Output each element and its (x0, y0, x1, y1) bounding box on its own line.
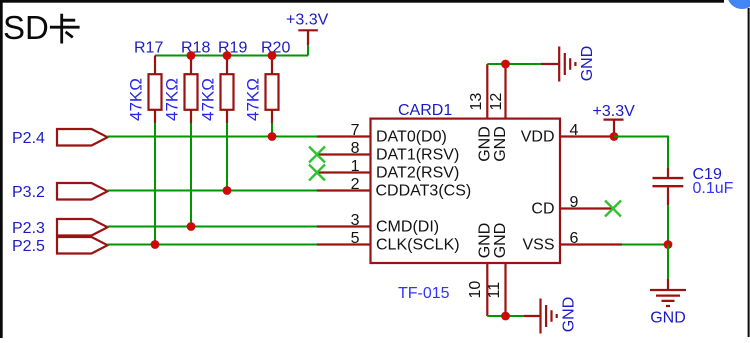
svg-text:GND: GND (650, 310, 686, 327)
svg-text:8: 8 (351, 140, 360, 157)
wire VSS to junction (622, 244, 668, 246)
junction P3.2/R19 (223, 186, 232, 195)
ground GND (bottom right) (650, 279, 686, 327)
svg-text:P2.3: P2.3 (12, 220, 45, 237)
no-ERC marker X pin 8 (309, 147, 325, 163)
power +3.3V (left) symbol (286, 12, 329, 56)
svg-text:P2.4: P2.4 (12, 130, 45, 147)
svg-text:GND: GND (579, 46, 596, 82)
svg-text:R19: R19 (218, 40, 247, 57)
svg-text:13: 13 (468, 93, 485, 111)
wire R20 column (271, 123, 273, 137)
border left (0, 0, 3, 338)
svg-text:1: 1 (351, 158, 360, 175)
svg-text:6: 6 (570, 230, 579, 247)
junction rail-R18 (187, 51, 196, 60)
pin 13 GND (top) (468, 64, 494, 162)
wire P2.3 to pin3 (108, 226, 318, 228)
no-ERC marker X pin 9 (605, 201, 621, 217)
svg-text:R18: R18 (181, 40, 210, 57)
port P2.5 (12, 237, 108, 255)
pin 12 GND (top) (488, 64, 509, 162)
no-ERC marker X pin 1 (309, 165, 325, 181)
resistor R20 (261, 40, 290, 124)
title SD卡 (3, 9, 80, 46)
svg-text:0.1uF: 0.1uF (693, 180, 734, 197)
pin 2 CDDAT3(CS) (317, 176, 471, 200)
wire P2.5 to pin5 (108, 244, 318, 246)
ground GND (top right, sideways) (541, 46, 596, 82)
wire +3.3V rail (155, 55, 308, 57)
wire R19 column (226, 123, 228, 191)
port P3.2 (12, 183, 108, 201)
ground GND (bottom, sideways) (524, 297, 578, 334)
resistor R19 (218, 40, 247, 124)
svg-text:11: 11 (486, 282, 503, 299)
svg-text:+3.3V: +3.3V (286, 12, 329, 29)
wire C19 to VSS row (667, 205, 669, 245)
pin 1 DAT2(RSV) (317, 158, 459, 182)
pin 8 DAT1(RSV) (317, 140, 459, 164)
wire P3.2 to pin2 (108, 190, 318, 192)
wire VDD to C19 column (614, 137, 668, 169)
svg-text:TF-015: TF-015 (398, 285, 450, 302)
svg-text:3: 3 (351, 212, 360, 229)
svg-text:DAT2(RSV): DAT2(RSV) (376, 165, 459, 182)
svg-text:+3.3V: +3.3V (593, 103, 636, 120)
svg-text:10: 10 (467, 281, 484, 299)
svg-text:P2.5: P2.5 (12, 238, 45, 255)
svg-text:7: 7 (351, 122, 360, 139)
svg-text:CD: CD (531, 201, 554, 218)
junction rail-R20 (268, 51, 277, 60)
svg-text:SD: SD (3, 9, 49, 46)
pin 7 DAT0(D0) (317, 122, 447, 146)
junction rail-R19 (223, 51, 232, 60)
svg-text:GND: GND (492, 223, 509, 259)
svg-text:P3.2: P3.2 (12, 184, 45, 201)
pin 10 GND (bottom) (467, 223, 494, 316)
port P2.4 (12, 129, 108, 147)
resistor R18 (181, 40, 210, 124)
border right (748, 8, 750, 337)
pin 9 CD (531, 194, 613, 218)
junction bottom pin11 (501, 312, 510, 321)
svg-text:CARD1: CARD1 (398, 102, 452, 119)
svg-text:VDD: VDD (521, 129, 555, 146)
pin 11 GND (bottom) (486, 223, 509, 316)
pin 3 CMD(DI) (317, 212, 439, 236)
svg-text:GND: GND (561, 297, 578, 333)
svg-text:2: 2 (351, 176, 360, 193)
port P2.3 (12, 219, 108, 237)
svg-text:DAT0(D0): DAT0(D0) (376, 129, 447, 146)
capacitor C19 (653, 166, 722, 205)
IC U1 CARD1 body (371, 119, 561, 263)
svg-text:47KΩ: 47KΩ (163, 78, 182, 121)
border top (0, 0, 724, 3)
svg-text:DAT1(RSV): DAT1(RSV) (376, 147, 459, 164)
svg-text:CLK(SCLK): CLK(SCLK) (376, 237, 460, 254)
pin 5 CLK(SCLK) (317, 230, 460, 254)
svg-text:4: 4 (570, 122, 579, 139)
junction VDD/+3.3V (610, 132, 619, 141)
pin 6 VSS (522, 230, 622, 254)
svg-text:12: 12 (488, 93, 505, 111)
svg-text:GND: GND (492, 126, 509, 162)
svg-text:R17: R17 (134, 40, 163, 57)
power +3.3V (right) symbol (593, 103, 636, 137)
wire R17 column (154, 123, 156, 245)
pin 4 VDD (521, 122, 614, 146)
svg-text:47KΩ: 47KΩ (127, 78, 146, 121)
wire bottom pins to GND (487, 315, 524, 317)
svg-text:VSS: VSS (522, 237, 554, 254)
wire R18 column (190, 123, 192, 227)
resistor R17 (134, 40, 163, 124)
wire top pins to GND (487, 63, 541, 65)
svg-text:CDDAT3(CS): CDDAT3(CS) (376, 183, 472, 200)
svg-text:5: 5 (351, 230, 360, 247)
svg-text:CMD(DI): CMD(DI) (376, 219, 439, 236)
junction P2.5/R17 (151, 240, 160, 249)
wire P2.4 to pin7 (108, 136, 318, 138)
junction P2.3/R18 (187, 222, 196, 231)
wire junction to ground (667, 245, 669, 280)
junction P2.4/R20 (268, 132, 277, 141)
svg-text:47KΩ: 47KΩ (244, 78, 263, 121)
junction top pin12 (501, 60, 510, 69)
svg-text:9: 9 (570, 194, 579, 211)
svg-text:47KΩ: 47KΩ (199, 78, 218, 121)
blue circle decoration top-right (727, 0, 750, 9)
junction VSS/C19/GND (664, 240, 673, 249)
